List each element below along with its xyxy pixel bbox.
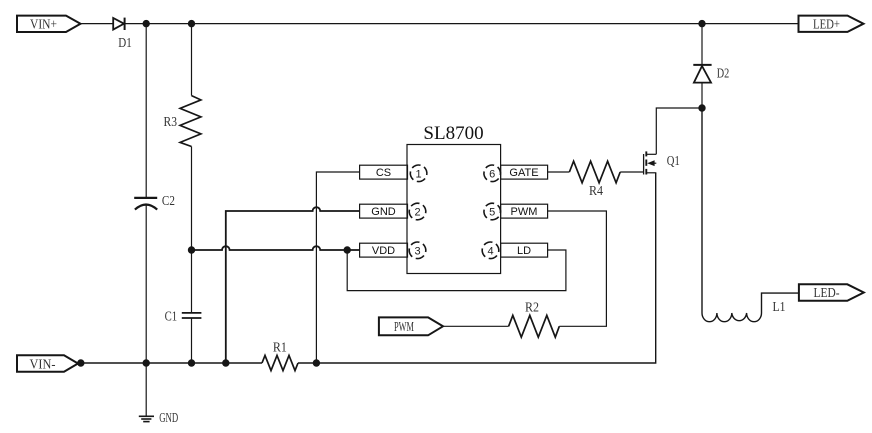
wire C2 to bottom rail — [145, 205, 147, 364]
pin 3 circle — [407, 240, 428, 261]
wire D2 top — [701, 24, 703, 65]
pin box LD — [501, 243, 548, 257]
node GND-wire bottom — [222, 359, 229, 366]
pin box GATE — [501, 165, 548, 179]
svg-text:CS: CS — [376, 167, 391, 179]
svg-text:2: 2 — [414, 207, 420, 219]
svg-text:R2: R2 — [525, 300, 539, 315]
svg-text:4: 4 — [487, 245, 493, 257]
svg-text:6: 6 — [489, 168, 495, 180]
ground — [139, 363, 178, 426]
svg-text:C2: C2 — [162, 194, 175, 209]
pin box PWM — [501, 204, 548, 218]
node top rail R3 — [188, 20, 195, 27]
wire VDD node to C1 — [191, 250, 193, 313]
node C2 bottom — [143, 359, 150, 366]
pin box GND — [360, 204, 408, 218]
svg-text:Q1: Q1 — [667, 154, 680, 169]
transistor Q1 — [644, 151, 680, 174]
node VDD R3 C1 — [188, 246, 195, 253]
connector VIN+ — [17, 16, 81, 32]
svg-text:D2: D2 — [717, 67, 730, 82]
pin box VDD — [360, 243, 408, 257]
svg-text:PWM: PWM — [394, 319, 414, 334]
connector LED+ — [799, 16, 864, 32]
wire R4 to Q1 gate — [620, 171, 643, 173]
wire VDD pin3 — [192, 246, 360, 250]
resistor R4 — [569, 161, 620, 199]
pin box CS — [360, 165, 408, 179]
wire R3 branch top — [191, 24, 193, 96]
svg-text:R3: R3 — [164, 115, 178, 130]
diode D1 — [113, 18, 132, 51]
svg-text:LED-: LED- — [814, 285, 840, 300]
pin 4 circle — [480, 240, 501, 261]
resistor R1 — [262, 341, 298, 371]
node VDD LD-loop — [344, 246, 351, 253]
wire R2 to PWM connector — [443, 325, 509, 327]
node drain D2 L1 — [698, 104, 705, 111]
node C1 bottom — [188, 359, 195, 366]
resistor R3 — [164, 96, 201, 147]
wire LD pin4 loop — [347, 250, 566, 291]
svg-text:GATE: GATE — [509, 167, 538, 179]
svg-text:LD: LD — [517, 245, 531, 257]
diode D2 — [693, 65, 729, 83]
svg-text:L1: L1 — [773, 300, 786, 315]
connector VIN- — [17, 355, 78, 371]
svg-text:R4: R4 — [589, 184, 603, 199]
svg-text:C1: C1 — [165, 310, 178, 325]
wire C2 branch top — [145, 24, 147, 198]
capacitor C2 — [134, 194, 175, 210]
connector LED- — [799, 284, 864, 301]
svg-text:VDD: VDD — [372, 245, 395, 257]
svg-text:PWM: PWM — [511, 206, 538, 218]
svg-text:3: 3 — [414, 245, 420, 257]
svg-text:SL8700: SL8700 — [423, 123, 483, 144]
svg-text:1: 1 — [416, 168, 422, 180]
node CS bottom — [313, 359, 320, 366]
wire VIN+ to D1 — [81, 23, 114, 25]
pin 6 circle — [482, 163, 503, 184]
pin 1 circle — [408, 163, 429, 184]
svg-text:GND: GND — [159, 411, 178, 426]
wire bottom rail left — [78, 362, 262, 364]
wire R3 to VDD node — [191, 147, 193, 251]
capacitor C1 — [165, 310, 202, 325]
wire GND pin2 — [226, 207, 360, 363]
pin 2 circle — [407, 201, 428, 222]
node VIN- — [77, 359, 84, 366]
inductor L1 — [702, 108, 799, 322]
node top rail D2 — [698, 20, 705, 27]
wire top rail — [125, 23, 799, 25]
node top rail C2 — [143, 20, 150, 27]
connector PWM — [379, 317, 443, 335]
resistor R2 — [509, 300, 560, 337]
svg-text:LED+: LED+ — [813, 16, 840, 31]
IC U1 SL8700 — [407, 123, 501, 274]
svg-text:D1: D1 — [118, 36, 132, 51]
wire GATE pin6 — [548, 171, 570, 173]
wire C1 to bottom rail — [191, 318, 193, 363]
wire Q1 drain — [656, 108, 702, 154]
pin 5 circle — [482, 201, 503, 222]
svg-text:R1: R1 — [273, 341, 287, 356]
svg-text:GND: GND — [371, 206, 396, 218]
wire PWM pin5 — [548, 211, 607, 326]
svg-text:VIN-: VIN- — [30, 356, 56, 371]
wire CS pin1 — [316, 172, 359, 363]
svg-text:VIN+: VIN+ — [30, 17, 57, 32]
wire D2 bottom — [701, 83, 703, 108]
svg-text:5: 5 — [489, 207, 495, 219]
wire bottom rail right and Q1 source — [298, 173, 656, 363]
